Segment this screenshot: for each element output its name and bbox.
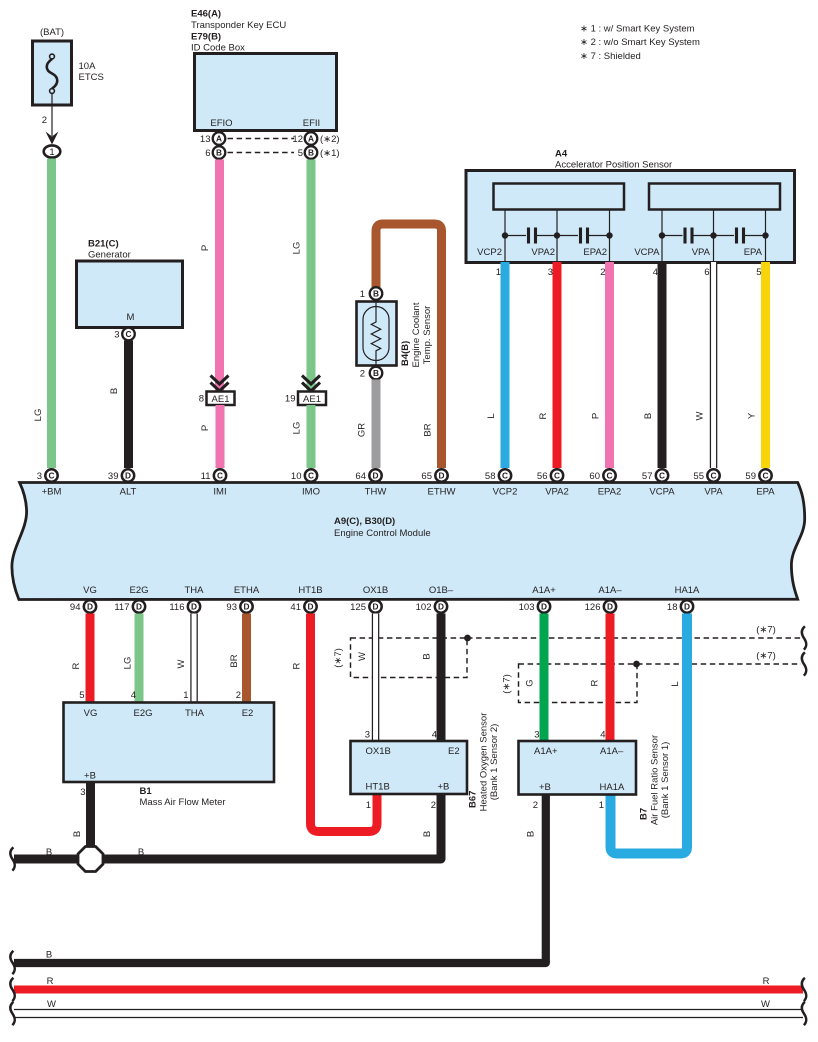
svg-text:LG: LG: [123, 657, 134, 670]
svg-text:VPA: VPA: [704, 487, 723, 498]
label B1 Mass Air Flow Meter: [140, 786, 226, 808]
wire label W: [357, 652, 368, 661]
svg-text:D: D: [684, 602, 690, 612]
svg-text:AE1: AE1: [303, 394, 321, 405]
svg-text:+B: +B: [438, 782, 450, 793]
wire G A1A+: [540, 614, 549, 742]
pin 2 label: [42, 115, 47, 126]
label EFIO: [210, 118, 232, 129]
svg-text:Mass Air Flow Meter: Mass Air Flow Meter: [140, 797, 226, 808]
svg-text:+B: +B: [84, 771, 96, 782]
wire label R: [590, 679, 601, 686]
svg-text:VCP2: VCP2: [493, 487, 518, 498]
svg-text:AE1: AE1: [212, 394, 230, 405]
wire W THA: [190, 614, 198, 703]
wire Y EPA: [761, 262, 770, 468]
wire B from B7 +B to bottom bus: [14, 795, 546, 964]
svg-text:B: B: [422, 831, 433, 837]
pin numbers A4: [496, 267, 762, 278]
svg-text:HA1A: HA1A: [600, 782, 625, 793]
wire label LG: [33, 409, 44, 422]
generator B21 box: [77, 261, 183, 328]
arrowhead: [46, 132, 59, 145]
terminal 3 C +BM: [37, 469, 62, 497]
svg-text:10A: 10A: [79, 61, 97, 72]
svg-text:3: 3: [365, 730, 370, 741]
svg-text:(∗1): (∗1): [320, 148, 340, 159]
svg-text:L: L: [670, 681, 681, 686]
svg-text:O1B–: O1B–: [429, 585, 454, 596]
svg-text:OX1B: OX1B: [363, 585, 388, 596]
svg-text:P: P: [200, 425, 211, 431]
pin 5 B terminal: [298, 146, 340, 159]
svg-text:THA: THA: [185, 708, 205, 719]
svg-text:B: B: [138, 847, 144, 858]
svg-text:C: C: [308, 471, 314, 481]
label (BAT): [40, 27, 64, 38]
svg-text:B: B: [422, 653, 433, 659]
svg-text:C: C: [49, 471, 55, 481]
svg-text:ETCS: ETCS: [79, 72, 104, 83]
wire break left (B bus): [10, 951, 15, 974]
shield dashed line 2: [637, 663, 801, 665]
svg-text:B: B: [216, 148, 222, 158]
svg-text:B: B: [308, 148, 314, 158]
wire label B: [422, 653, 433, 659]
svg-text:1: 1: [366, 800, 371, 811]
svg-text:BR: BR: [229, 654, 240, 667]
svg-text:10: 10: [291, 471, 302, 482]
svg-text:56: 56: [537, 471, 548, 482]
shield junction dot 1: [464, 635, 471, 642]
svg-text:117: 117: [114, 602, 129, 613]
terminal 57 C VCPA: [642, 469, 675, 497]
svg-text:126: 126: [585, 602, 601, 613]
svg-text:C: C: [554, 471, 560, 481]
pin 13 A terminal: [200, 132, 225, 145]
svg-text:GR: GR: [357, 423, 368, 437]
pin numbers above B7: [534, 730, 605, 741]
brace right 1: [802, 626, 807, 649]
wire label R: [71, 662, 82, 669]
ECM A9/B30 band: [12, 483, 805, 600]
wire P IMI lower: [216, 405, 225, 468]
wire label B: [109, 388, 120, 394]
svg-text:+B: +B: [539, 782, 551, 793]
svg-text:+BM: +BM: [42, 487, 62, 498]
svg-text:2: 2: [360, 369, 365, 380]
svg-text:VG: VG: [83, 585, 97, 596]
svg-text:2: 2: [533, 800, 538, 811]
svg-text:HT1B: HT1B: [366, 782, 390, 793]
svg-text:B: B: [526, 831, 537, 837]
label 10A ETCS: [79, 61, 104, 83]
svg-text:5: 5: [79, 690, 84, 701]
svg-text:B1: B1: [140, 786, 153, 797]
terminal 65 D ETHW: [421, 469, 455, 497]
svg-text:∗ 7 : Shielded: ∗ 7 : Shielded: [580, 51, 641, 62]
terminal 64 D THW: [355, 469, 386, 497]
svg-text:4: 4: [432, 730, 437, 741]
svg-text:1: 1: [360, 289, 365, 300]
terminal 94 D VG: [70, 600, 96, 613]
svg-text:2: 2: [236, 690, 241, 701]
wire label GR: [357, 423, 368, 437]
ECM bottom pin labels row: [83, 585, 700, 596]
bus label R right: [763, 976, 770, 987]
wire BR ETHA: [242, 614, 251, 703]
svg-text:A1A+: A1A+: [532, 585, 556, 596]
svg-text:Engine Coolant: Engine Coolant: [411, 302, 422, 367]
svg-text:94: 94: [70, 602, 81, 613]
svg-text:4: 4: [653, 267, 658, 278]
wire B VCPA: [658, 262, 667, 468]
svg-text:64: 64: [355, 471, 366, 482]
capacitor plates right group: [685, 228, 744, 244]
svg-text:3: 3: [37, 471, 42, 482]
svg-text:Air Fuel Ratio Sensor: Air Fuel Ratio Sensor: [650, 735, 661, 825]
svg-text:B7: B7: [639, 808, 650, 820]
wire label B: [643, 413, 654, 419]
svg-text:2: 2: [42, 115, 47, 126]
node 1 circle: [44, 145, 61, 158]
svg-text:Heated Oxygen Sensor: Heated Oxygen Sensor: [479, 713, 490, 812]
svg-text:HT1B: HT1B: [298, 585, 322, 596]
bus label W left: [47, 999, 56, 1010]
svg-text:HA1A: HA1A: [675, 585, 700, 596]
wire label Y: [747, 412, 758, 419]
svg-text:THW: THW: [365, 487, 387, 498]
pin numbers above B1: [79, 690, 241, 701]
svg-text:IMI: IMI: [213, 487, 226, 498]
wire R HT1B: [311, 614, 378, 832]
terminal 116 D THA: [169, 600, 200, 613]
ECU E46/E79 box: [195, 54, 337, 131]
wire L HA1A: [611, 614, 688, 854]
junction AE1 (pink) pin 8: [199, 392, 235, 406]
pin numbers below B7: [533, 800, 604, 811]
svg-text:39: 39: [108, 471, 119, 482]
svg-text:D: D: [244, 602, 250, 612]
terminal 58 C VCP2: [485, 469, 517, 497]
svg-text:D: D: [439, 471, 445, 481]
svg-text:Accelerator Position Sensor: Accelerator Position Sensor: [555, 160, 672, 171]
shield dashed line 1: [467, 637, 801, 639]
label B4(B) Engine Coolant Temp. Sensor: [400, 302, 433, 367]
internal wiring right group: [662, 210, 766, 263]
shield label (*7): [333, 648, 344, 668]
svg-text:A9(C), B30(D): A9(C), B30(D): [334, 516, 395, 527]
wire label L: [670, 681, 681, 686]
svg-text:EPA2: EPA2: [583, 247, 607, 258]
svg-text:19: 19: [285, 394, 296, 405]
svg-text:VPA2: VPA2: [531, 247, 555, 258]
svg-text:(∗2): (∗2): [320, 134, 340, 145]
internal wiring left group: [505, 210, 610, 263]
svg-text:1: 1: [49, 147, 54, 158]
svg-text:93: 93: [226, 602, 237, 613]
shield dashed box 1: [351, 638, 468, 678]
svg-text:∗ 1 : w/ Smart Key System: ∗ 1 : w/ Smart Key System: [580, 24, 695, 35]
svg-text:ALT: ALT: [120, 487, 137, 498]
terminal 60 C EPA2: [589, 469, 621, 497]
wire B from B1 +B to junction: [86, 783, 95, 860]
wire break right (W bus): [802, 1002, 807, 1025]
svg-text:R: R: [47, 976, 54, 987]
svg-text:4: 4: [600, 730, 605, 741]
terminal 103 D A1A+: [519, 600, 551, 613]
mass air flow meter B1 box: [64, 703, 275, 783]
svg-text:60: 60: [589, 471, 600, 482]
svg-text:P: P: [200, 245, 211, 251]
terminal 59 C EPA: [745, 469, 775, 497]
coolant temp sensor B4 box: [357, 302, 397, 366]
label (*7) right 2: [756, 651, 776, 662]
air fuel ratio sensor B7 box: [519, 741, 637, 795]
svg-text:D: D: [191, 602, 197, 612]
svg-text:6: 6: [704, 267, 709, 278]
bottom bus wire R: [14, 986, 803, 994]
wire label B: [72, 831, 83, 837]
svg-text:EFIO: EFIO: [210, 118, 232, 129]
svg-text:ID Code Box: ID Code Box: [191, 43, 245, 54]
legend note *1: [580, 24, 695, 35]
terminal 102 D O1B-: [416, 600, 448, 613]
svg-text:3: 3: [548, 267, 553, 278]
junction AE1 (green) pin 19: [285, 392, 326, 406]
svg-text:∗ 2 : w/o Smart Key System: ∗ 2 : w/o Smart Key System: [580, 37, 700, 48]
svg-text:5: 5: [756, 267, 761, 278]
svg-text:C: C: [659, 471, 665, 481]
dashed link row B: [228, 152, 295, 154]
label A9(C), B30(D) Engine Control Module: [334, 516, 431, 539]
svg-text:W: W: [176, 659, 187, 668]
wire B from B67 +B down: [422, 831, 433, 837]
wire R VG: [86, 614, 95, 703]
bus label B right: [138, 847, 144, 858]
svg-text:C: C: [126, 329, 132, 339]
wire break left (R bus): [10, 978, 15, 1001]
terminal 93 D ETHA: [226, 600, 252, 613]
svg-text:(BAT): (BAT): [40, 27, 64, 38]
wire L VCP2: [501, 262, 510, 468]
wire break left (bus): [10, 847, 15, 870]
svg-text:59: 59: [745, 471, 756, 482]
svg-text:B: B: [373, 289, 379, 299]
capacitor plates left group: [529, 228, 588, 244]
svg-text:11: 11: [201, 471, 211, 482]
B1 pin labels: [84, 708, 254, 782]
svg-text:(Bank 1 Sensor 1): (Bank 1 Sensor 1): [660, 742, 671, 819]
terminal 18 D HA1A: [667, 600, 693, 613]
svg-text:W: W: [761, 999, 770, 1010]
wire GR THW: [372, 380, 381, 469]
svg-text:102: 102: [416, 602, 432, 613]
wire W VPA: [710, 262, 718, 468]
svg-text:125: 125: [350, 602, 366, 613]
wire LG IMO upper: [307, 160, 316, 392]
svg-text:13: 13: [200, 134, 211, 145]
svg-text:B4(B): B4(B): [400, 341, 411, 366]
bus label W right: [761, 999, 770, 1010]
svg-text:58: 58: [485, 471, 496, 482]
svg-text:C: C: [217, 471, 223, 481]
label A4 Accelerator Position Sensor: [555, 149, 672, 171]
svg-text:3: 3: [114, 330, 119, 341]
terminal 11 C IMI: [201, 469, 227, 497]
wire BR ETHW loop: [376, 224, 442, 468]
svg-text:VCPA: VCPA: [634, 247, 660, 258]
svg-text:P: P: [591, 413, 602, 419]
svg-text:OX1B: OX1B: [366, 746, 391, 757]
svg-text:D: D: [438, 602, 444, 612]
svg-text:E79(B): E79(B): [191, 32, 221, 43]
svg-text:VCP2: VCP2: [477, 247, 502, 258]
svg-text:ETHW: ETHW: [428, 487, 456, 498]
pin 6 B terminal: [205, 146, 225, 159]
dashed link row A: [228, 138, 295, 140]
svg-text:VPA: VPA: [692, 247, 711, 258]
svg-text:D: D: [373, 602, 379, 612]
wire R A1A-: [606, 614, 615, 742]
svg-text:W: W: [357, 652, 368, 661]
svg-text:D: D: [125, 471, 131, 481]
shield junction dot 2: [633, 661, 640, 668]
svg-text:VCPA: VCPA: [649, 487, 675, 498]
svg-text:IMO: IMO: [302, 487, 320, 498]
svg-text:55: 55: [693, 471, 704, 482]
wire label LG: [123, 657, 134, 670]
junction dots right group: [659, 232, 769, 238]
svg-text:1: 1: [183, 690, 188, 701]
svg-text:4: 4: [131, 690, 136, 701]
svg-text:1: 1: [496, 267, 501, 278]
wire label BR: [423, 423, 434, 436]
svg-text:D: D: [87, 602, 93, 612]
bottom bus wire W: [14, 1010, 803, 1018]
wire label L: [486, 413, 497, 418]
svg-text:W: W: [695, 411, 706, 420]
terminal 125 D OX1B: [350, 600, 382, 613]
bus label B left: [46, 847, 52, 858]
svg-text:E2: E2: [242, 708, 254, 719]
B7 pin labels: [534, 746, 625, 793]
wire P EPA2: [605, 262, 614, 468]
label B21(C) Generator: [88, 239, 131, 261]
svg-text:D: D: [373, 471, 379, 481]
wire W OX1B: [372, 614, 380, 742]
svg-text:116: 116: [169, 602, 184, 613]
pin labels A4: [477, 247, 762, 258]
B67 pin labels: [366, 746, 460, 793]
pin 12 A terminal: [292, 132, 339, 145]
svg-text:B21(C): B21(C): [88, 239, 119, 250]
wire break left (W bus): [10, 1002, 15, 1025]
svg-text:B: B: [72, 831, 83, 837]
chevrons into AE1 (green): [302, 376, 320, 392]
svg-text:(∗7): (∗7): [502, 674, 513, 694]
svg-text:5: 5: [298, 148, 303, 159]
svg-text:12: 12: [292, 134, 303, 145]
svg-text:C: C: [763, 471, 769, 481]
terminal 126 D A1A-: [585, 600, 617, 613]
svg-text:LG: LG: [292, 242, 303, 255]
accelerator position sensor A4 box: [466, 171, 795, 263]
svg-text:B: B: [109, 388, 120, 394]
label M: [127, 312, 135, 323]
wire break right (R bus): [802, 978, 807, 1001]
svg-text:C: C: [502, 471, 508, 481]
svg-text:Engine Control Module: Engine Control Module: [334, 528, 431, 539]
wire label R: [292, 662, 303, 669]
terminal 56 C VPA2: [537, 469, 569, 497]
legend note *2: [580, 37, 700, 48]
svg-text:(∗7): (∗7): [756, 625, 776, 636]
svg-text:W: W: [47, 999, 56, 1010]
wire label P: [591, 413, 602, 419]
wire LG battery to +BM: [47, 159, 56, 469]
svg-text:A4: A4: [555, 149, 568, 160]
svg-text:D: D: [607, 602, 613, 612]
svg-text:R: R: [590, 679, 601, 686]
pin 3 C terminal: [114, 328, 135, 341]
svg-text:Generator: Generator: [88, 250, 131, 261]
svg-text:THA: THA: [185, 585, 205, 596]
svg-text:103: 103: [519, 602, 535, 613]
svg-text:57: 57: [642, 471, 653, 482]
svg-text:M: M: [127, 312, 135, 323]
svg-text:E2G: E2G: [129, 585, 148, 596]
wire label B: [526, 831, 537, 837]
ground bus wire B horizontal: [14, 794, 441, 859]
brace right 2: [802, 652, 807, 675]
wire LG E2G: [135, 614, 144, 703]
pin numbers below B67: [366, 800, 436, 811]
thermistor symbol: [363, 303, 389, 365]
svg-text:A1A+: A1A+: [534, 746, 558, 757]
wire P IMI upper: [215, 160, 224, 392]
terminal 10 C IMO: [291, 469, 320, 497]
terminal 117 D E2G: [114, 600, 145, 613]
legend note *7: [580, 51, 641, 62]
wire R VPA2: [553, 262, 562, 468]
svg-text:B: B: [46, 950, 52, 961]
svg-text:18: 18: [667, 602, 678, 613]
fuse element symbol: [47, 54, 58, 93]
wire B ALT: [124, 341, 133, 469]
svg-text:1: 1: [599, 800, 604, 811]
pin 1 B terminal (coolant sensor): [360, 287, 383, 300]
inner element right: [649, 184, 780, 210]
wire label P upper: [200, 245, 211, 251]
svg-text:G: G: [525, 679, 536, 686]
inner element left: [494, 184, 625, 210]
svg-text:6: 6: [205, 148, 210, 159]
svg-text:ETHA: ETHA: [234, 585, 260, 596]
fuse F1 10A ETCS box: [33, 41, 72, 105]
wire label LG lower: [292, 422, 303, 435]
svg-text:L: L: [486, 413, 497, 418]
bottom bus label B: [46, 950, 52, 961]
label B7 Air Fuel Ratio Sensor (Bank 1 Sensor 1): [639, 735, 672, 825]
shield label (*7): [502, 674, 513, 694]
svg-text:Transponder Key ECU: Transponder Key ECU: [191, 20, 286, 31]
svg-text:A1A–: A1A–: [598, 585, 622, 596]
terminal 41 D HT1B: [290, 600, 316, 613]
svg-text:65: 65: [421, 471, 432, 482]
svg-text:B: B: [643, 413, 654, 419]
svg-text:8: 8: [199, 394, 204, 405]
